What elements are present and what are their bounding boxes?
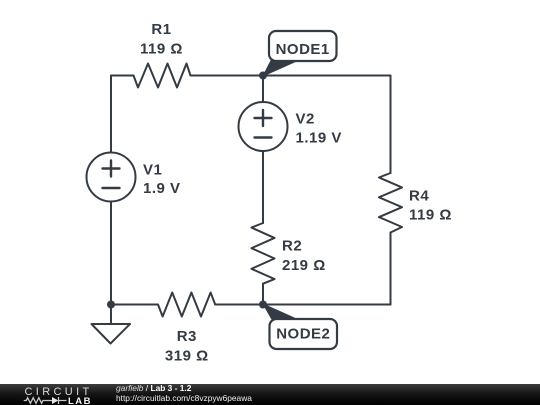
svg-text:219 Ω: 219 Ω	[282, 257, 326, 274]
svg-text:LAB: LAB	[68, 396, 92, 405]
node NODE2 flag tail	[262, 303, 300, 321]
svg-text:V2: V2	[296, 111, 315, 128]
voltage source V1 body	[87, 153, 136, 202]
svg-text:NODE2: NODE2	[276, 326, 330, 343]
voltage source V2 body	[239, 102, 288, 151]
svg-text:R2: R2	[282, 238, 302, 255]
svg-text:1.19 V: 1.19 V	[296, 129, 342, 146]
wire NODE2 junction to R3	[215, 304, 263, 306]
svg-text:319 Ω: 319 Ω	[165, 348, 209, 365]
junction dot NODE2	[259, 301, 267, 309]
svg-text:garfielb / Lab 3 - 1.2: garfielb / Lab 3 - 1.2	[116, 383, 192, 393]
junction dot NODE1	[259, 72, 267, 80]
resistor R4	[379, 173, 402, 233]
CircuitLab logo diode symbol	[52, 397, 58, 404]
svg-text:NODE1: NODE1	[276, 41, 330, 58]
ground symbol	[92, 324, 131, 344]
resistor R3	[158, 293, 215, 317]
wire NODE1 junction to top-right corner	[263, 75, 391, 77]
V1 plus sign	[103, 161, 120, 177]
svg-text:R1: R1	[151, 21, 171, 38]
wire top-left corner from left rail to R1	[111, 75, 134, 77]
wire R2 to NODE2 junction	[262, 284, 264, 305]
svg-text:119 Ω: 119 Ω	[409, 207, 452, 224]
node NODE1 flag box	[269, 31, 337, 61]
svg-text:1.9 V: 1.9 V	[143, 180, 181, 197]
wire bottom-right corner to NODE2 junction	[263, 304, 391, 306]
wire right rail top: corner down to R4	[390, 76, 392, 174]
V2 plus sign	[255, 110, 272, 126]
wire right rail bottom: R4 to bottom-right corner	[390, 233, 392, 305]
resistor R1	[134, 64, 191, 88]
svg-text:http://circuitlab.com/c8vzpyw6: http://circuitlab.com/c8vzpyw6peawa	[116, 393, 252, 403]
junction dot ground node	[107, 301, 115, 309]
svg-text:R4: R4	[409, 188, 429, 205]
wire NODE1 junction down to V2	[262, 76, 264, 103]
node NODE1 flag tail	[262, 59, 299, 78]
svg-text:R3: R3	[177, 328, 197, 345]
wire ground stem	[110, 305, 112, 325]
V2 minus sign	[255, 136, 272, 138]
svg-text:119 Ω: 119 Ω	[140, 41, 183, 58]
wire left rail bottom: V1 to ground node	[110, 202, 112, 305]
CircuitLab logo resistor squiggle	[24, 398, 52, 404]
wire R3 to ground node	[111, 304, 158, 306]
wire R1 to NODE1 junction	[191, 75, 264, 77]
node NODE2 flag box	[270, 319, 338, 349]
wire V2 to R2	[262, 151, 264, 223]
V1 minus sign	[103, 187, 120, 189]
resistor R2	[252, 223, 275, 284]
svg-text:V1: V1	[143, 161, 162, 178]
wire left rail top: corner down to V1	[110, 76, 112, 153]
